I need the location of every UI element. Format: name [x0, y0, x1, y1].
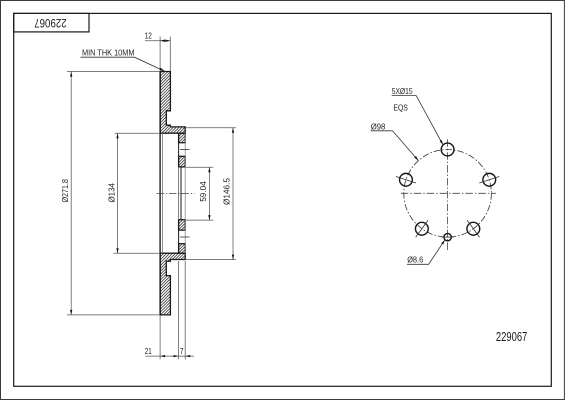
- horizontal centre line: [401, 192, 496, 194]
- dimension dia 134: [114, 133, 161, 253]
- hub face line through bore: [178, 167, 180, 220]
- svg-text:21: 21: [145, 346, 152, 356]
- svg-text:Ø98: Ø98: [371, 122, 386, 131]
- svg-text:Ø146.5: Ø146.5: [221, 178, 231, 205]
- title box: [14, 13, 89, 32]
- bolt circle dia 98: [404, 150, 492, 238]
- bolt hole right: [483, 173, 496, 186]
- svg-text:5XØ15: 5XØ15: [392, 87, 414, 96]
- hub face line upper: [178, 133, 180, 167]
- bolt hole lower-left: [415, 222, 428, 235]
- svg-text:Ø134: Ø134: [107, 183, 117, 203]
- dimension dia 146.5: [185, 128, 236, 260]
- svg-text:Ø8.6: Ø8.6: [407, 254, 423, 264]
- svg-text:229067: 229067: [496, 330, 527, 344]
- bolt hole tick bottom: [180, 236, 190, 238]
- dimension 12: [145, 37, 170, 71]
- svg-text:229067: 229067: [34, 16, 67, 28]
- svg-text:Ø271.8: Ø271.8: [60, 179, 70, 203]
- svg-text:12: 12: [145, 31, 152, 41]
- dimensions 21 and 7: [145, 261, 194, 359]
- svg-text:7: 7: [180, 346, 184, 356]
- radial tick lower-left hole: [416, 220, 428, 237]
- hub face line lower: [178, 220, 180, 254]
- svg-text:MIN THK 10MM: MIN THK 10MM: [82, 47, 135, 57]
- small hole horizontal tick: [442, 236, 454, 238]
- small hole dia 8.6: [444, 233, 451, 240]
- dimension 59.04: [186, 167, 213, 220]
- hatched ring+flange top: [160, 72, 185, 134]
- bolt hole lower-right: [467, 222, 480, 235]
- section centre line: [157, 192, 195, 194]
- ring bore chamfer line: [161, 133, 163, 253]
- bolt hole tick top: [180, 148, 190, 150]
- hub bore line: [180, 167, 182, 220]
- radial tick left hole: [396, 177, 416, 183]
- bolt hole left: [400, 173, 413, 186]
- radial tick lower-right hole: [467, 220, 479, 237]
- radial tick right hole: [479, 177, 499, 183]
- disc outboard face line: [159, 72, 161, 315]
- bolt hole top: [441, 143, 454, 156]
- vertical centre line: [447, 139, 449, 251]
- hatched ring+flange bottom: [160, 253, 185, 315]
- hub wall hatched segments: [179, 133, 186, 253]
- svg-text:59.04: 59.04: [198, 181, 208, 202]
- dimension dia 271.8: [67, 71, 160, 315]
- svg-text:EQS: EQS: [393, 104, 408, 113]
- hub back face line: [184, 133, 186, 253]
